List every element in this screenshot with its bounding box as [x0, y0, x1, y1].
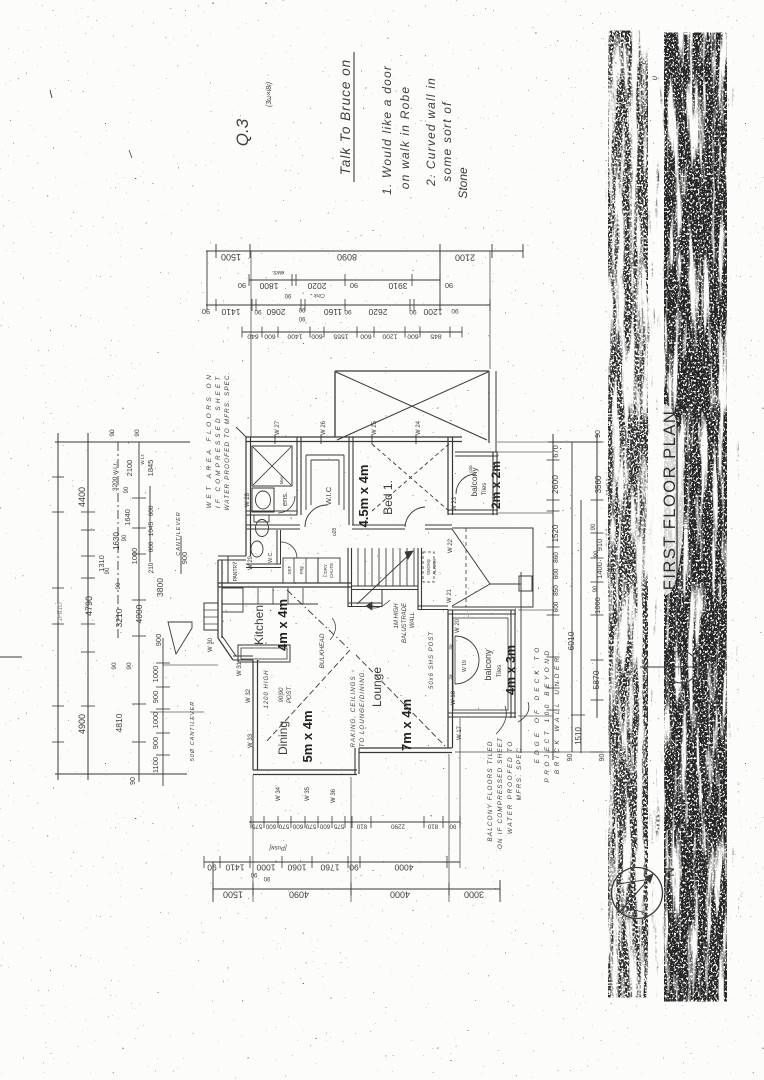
- ceiling dash lounge: [356, 655, 445, 746]
- balcony 4x3 bottom wall: [448, 712, 516, 714]
- wc toilet: [251, 541, 263, 557]
- kitchen splay corner: [218, 638, 233, 660]
- lounge bottom wall: [359, 747, 452, 749]
- compass needle line: [620, 874, 653, 912]
- balcony 4x3 top wall: [448, 609, 516, 611]
- detail circle symbol: [665, 651, 697, 683]
- compass chord 2: [622, 906, 645, 913]
- laundry chute box: [318, 558, 340, 583]
- svg-text:1:100⋮: 1:100⋮: [684, 509, 690, 530]
- right dim top boundary: [548, 441, 601, 443]
- wir bed1 dividing wall: [348, 437, 350, 525]
- underline talk to bruce: [353, 52, 355, 182]
- lower roof hip 1: [452, 529, 490, 584]
- right extension y610: [518, 609, 553, 611]
- ens toilet: [256, 520, 269, 537]
- note leader curve 2: [496, 706, 506, 734]
- lower roof chimney box: [519, 576, 532, 591]
- right dim vertical 4: [596, 434, 598, 718]
- lower roof hip 2: [452, 584, 490, 606]
- french door arc 1: [455, 636, 479, 660]
- window tick W25: [371, 435, 373, 444]
- right extension y752: [455, 751, 620, 753]
- right extension y442: [497, 441, 548, 443]
- photocopy noise band strip B: [667, 42, 724, 992]
- stray mark left edge: [129, 150, 132, 158]
- bed1 roof valley dashed 2: [372, 444, 449, 511]
- bottom dim row C line: [213, 888, 500, 890]
- bed1 bottom wall left part: [352, 524, 405, 526]
- ens wir dividing wall: [296, 437, 298, 515]
- bottom grid vertical x500: [499, 880, 501, 902]
- left dim vertical outer: [57, 433, 59, 780]
- ens vanity: [252, 488, 274, 512]
- stair left wall: [347, 548, 349, 607]
- dining-lounge step wall: [354, 748, 356, 774]
- svg-text:ν: ν: [681, 666, 687, 669]
- laundry boxes: [283, 558, 318, 583]
- photocopy noise band halo: [603, 46, 651, 992]
- hall wall: [246, 524, 300, 526]
- right dim vertical 1: [552, 434, 554, 760]
- title underline: [676, 421, 678, 579]
- svg-text:N: N: [662, 867, 677, 876]
- photocopy noise band gap speckle: [646, 42, 668, 990]
- grid extension line x207: [206, 251, 208, 310]
- bottom grid vertical x213: [212, 862, 214, 902]
- dining bottom wall: [253, 769, 357, 771]
- photocopy noise band strip A: [610, 40, 646, 988]
- landing wall to balcony: [418, 605, 448, 607]
- balcony 4x3 inner rail: [453, 618, 508, 710]
- ens bottom wall: [246, 510, 297, 512]
- window tick W24: [415, 435, 417, 444]
- wc room wall bottom: [246, 563, 281, 565]
- dimension chain row 1 (1500/8090/2100) line: [206, 250, 523, 252]
- detail circle line: [640, 666, 707, 668]
- left wall jog: [218, 555, 246, 557]
- roof diagonal 2: [337, 372, 488, 440]
- north compass circle: [612, 868, 663, 919]
- grid extension line x490: [489, 251, 491, 369]
- left exterior wall upper: [245, 437, 247, 556]
- dimension chain row 3 line: [206, 304, 490, 306]
- cantilever bracket symbol: [168, 622, 192, 654]
- right extension y718: [518, 715, 553, 717]
- bed1 bottom wall right part: [425, 524, 452, 526]
- top exterior wall: [246, 436, 462, 438]
- kitchen exterior wall: [217, 560, 219, 638]
- stair up arrow: [357, 551, 413, 604]
- dining exterior wall: [252, 660, 254, 770]
- right dim vertical 3: [580, 500, 582, 753]
- left dim block top boundary line: [55, 441, 190, 443]
- grid extension line x440: [439, 251, 441, 310]
- roof diagonal 1: [336, 372, 487, 440]
- pantry wall: [227, 556, 229, 583]
- bottom grid vertical x351: [350, 777, 352, 902]
- compass chord 1: [618, 879, 651, 884]
- left dim block bottom boundary line: [55, 773, 187, 775]
- dimension chain row 2 line: [249, 279, 440, 281]
- ceiling dash dining: [266, 650, 350, 742]
- bottom grid vertical x253: [252, 775, 254, 902]
- french door arc 2: [455, 660, 479, 684]
- kitchen bay window: [204, 603, 218, 630]
- ceiling dash kitchen-dining: [287, 590, 350, 650]
- balustrade leader arrow: [366, 600, 390, 608]
- stair landing wall right: [417, 548, 419, 610]
- compass arrowhead: [645, 874, 653, 883]
- balcony 2x2 right wall: [492, 452, 494, 515]
- svg-text:FIRST FLOOR PLAN: FIRST FLOOR PLAN: [661, 410, 679, 590]
- lounge-balcony wall: [447, 610, 449, 748]
- left dim vertical 3: [117, 442, 119, 640]
- ens door arc: [278, 496, 295, 513]
- bed1 right wall: [447, 437, 449, 515]
- left dim vertical 4: [138, 442, 140, 782]
- kitchen bottom wall: [233, 655, 253, 657]
- bulkhead leader: [330, 618, 336, 640]
- deck leader arrow: [518, 702, 529, 722]
- photocopy noise band right fringe: [724, 55, 742, 960]
- kitchen fridge box: [222, 588, 243, 612]
- stair balustrade: [352, 585, 418, 587]
- left margin tick: [0, 656, 22, 658]
- lower roof ridge: [490, 583, 521, 585]
- roof outline (top, over entry below): [335, 370, 489, 372]
- title clear window: [648, 405, 684, 595]
- stair treads: [357, 548, 359, 586]
- kitchen island bench: [238, 645, 290, 662]
- left dim vertical 2: [87, 433, 89, 780]
- bed1 entry door arc: [405, 507, 425, 527]
- wc room wall vertical: [276, 530, 278, 564]
- window tick W26: [320, 435, 322, 444]
- smoke alarm dashed box: [423, 552, 434, 582]
- left dim vertical 5: [149, 486, 151, 562]
- bed1 roof valley dashed 1: [372, 444, 449, 511]
- bottom grid vertical x449: [448, 754, 450, 902]
- wir shelves: [306, 455, 344, 510]
- kitchen bench line: [222, 603, 318, 605]
- balcony 2x2 bottom wall: [448, 509, 498, 511]
- wir door arc: [305, 505, 327, 527]
- gutter edge line: [520, 572, 522, 753]
- shower diagonal 1: [253, 447, 291, 485]
- left extension line y666: [163, 664, 218, 666]
- right dim vertical 5: [609, 695, 611, 775]
- right dim vertical 2: [571, 442, 573, 752]
- bed1 balcony door arc: [456, 474, 476, 494]
- kitchen bench dividers: [257, 588, 259, 604]
- stray tick top left: [50, 90, 52, 98]
- wc door arc: [281, 542, 297, 558]
- lower roof dashed edge: [465, 528, 467, 607]
- vanity basin: [256, 491, 271, 509]
- bottom dim row B line: [204, 861, 460, 863]
- bottom dim row A line: [249, 821, 460, 823]
- left dim vertical 6: [162, 638, 164, 786]
- left tick set A: [52, 476, 64, 478]
- roof corner mark top-left: [236, 427, 246, 437]
- window tick W27: [274, 435, 276, 444]
- shower recess: [252, 446, 292, 486]
- stair bottom walls: [348, 602, 382, 604]
- balcony 2x2 top wall: [455, 451, 498, 453]
- left dim vertical 7 short: [180, 536, 182, 574]
- right extension y452: [498, 451, 553, 453]
- dimension chain row 4 line: [242, 331, 462, 333]
- right extension y515: [498, 512, 553, 514]
- bottom grid vertical x460: [459, 718, 461, 868]
- left extension line y712: [150, 711, 204, 713]
- grid extension line x252: [250, 251, 252, 437]
- lower roof box: [452, 528, 533, 607]
- right dim tick 715: [571, 714, 585, 716]
- kitchen top wall: [218, 582, 352, 584]
- balcony 4x3 right wall: [510, 610, 512, 718]
- shower diagonal 2: [253, 447, 291, 485]
